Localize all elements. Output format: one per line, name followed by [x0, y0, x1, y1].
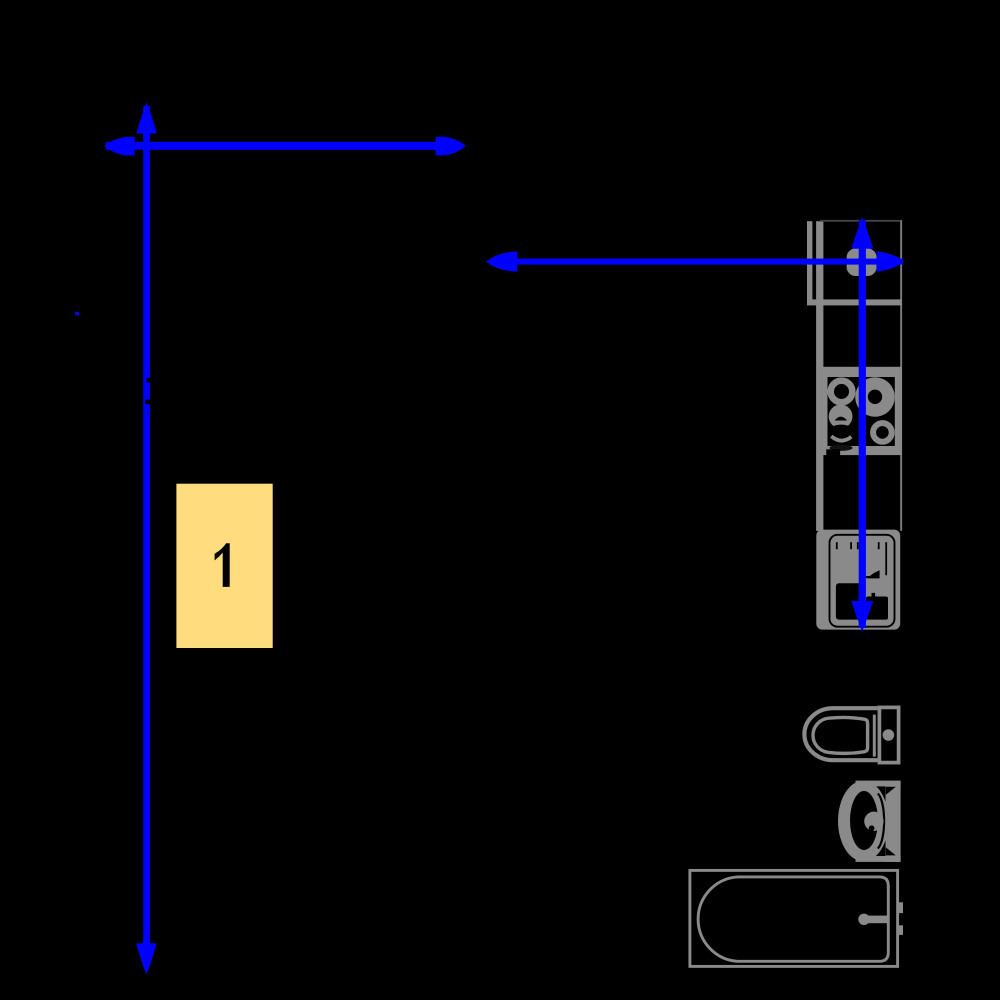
dimension line vertical left [136, 103, 157, 975]
tub faucet [858, 914, 869, 925]
drainer ticks [836, 542, 887, 578]
flower symbol at dimension crossing [847, 248, 877, 276]
sink bowl right [866, 597, 888, 620]
stove unit [818, 367, 902, 456]
dimension line horizontal top [104, 137, 465, 156]
cistern [879, 707, 898, 762]
burner bottom-left small [829, 405, 853, 429]
stray blue dot [75, 312, 79, 315]
washbasin gray band right [886, 781, 901, 862]
toilet seat hinge [873, 715, 876, 757]
sink bowl left [836, 583, 862, 619]
tub inner [698, 877, 888, 961]
toilet bowl inner [813, 717, 868, 753]
sink unit [816, 530, 900, 630]
toilet [804, 707, 898, 762]
dimension line vertical right [851, 217, 873, 632]
wall tabs [898, 902, 904, 913]
kitchen shelf line [807, 299, 902, 305]
kitchen counter thin outline right [900, 221, 902, 531]
tub outer rect [690, 870, 898, 966]
kitchen window double bar [807, 221, 823, 531]
bathtub [690, 870, 903, 966]
dimension text marks on vertical line [147, 378, 150, 382]
washbasin rim arc [878, 794, 884, 849]
washbasin drain [864, 812, 883, 831]
flush button [883, 729, 895, 741]
room 1 (yellow) [176, 484, 272, 648]
burner top-right [855, 377, 895, 417]
washbasin [838, 781, 901, 862]
pot on stove [828, 425, 855, 442]
kitchen counter thin outline top [820, 220, 902, 222]
washbasin counter top and bottom edges [856, 781, 901, 787]
faucet spout [867, 570, 880, 578]
toilet bowl outer [804, 708, 877, 760]
burner bottom-right [873, 423, 892, 442]
dimension line horizontal middle [486, 251, 904, 271]
burner top-left [831, 381, 853, 403]
